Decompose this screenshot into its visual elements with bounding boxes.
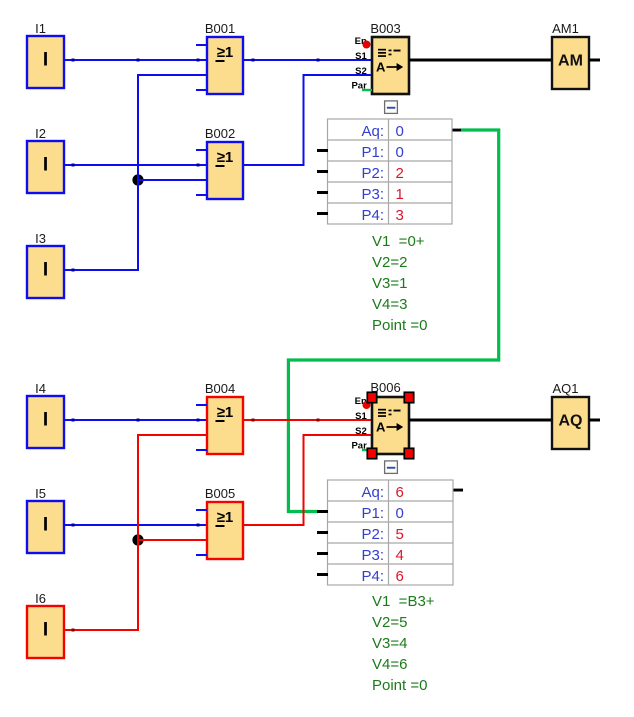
wire I3 to B001 input 3 (vertical trunk) <box>64 75 207 272</box>
svg-text:S2: S2 <box>355 66 367 77</box>
svg-text:V1 =0+: V1 =0+ <box>372 233 425 250</box>
svg-text:P4:: P4: <box>361 207 384 224</box>
wire I2 to B002 input 2 <box>64 164 207 167</box>
svg-text:Point =0: Point =0 <box>372 677 427 694</box>
analog output AM1 <box>552 21 600 89</box>
svg-text:P3:: P3: <box>361 547 384 564</box>
wire B003 output to AM1 (analog, black) <box>409 59 552 62</box>
wire B002 output to B003 S2 <box>243 75 372 165</box>
wire I1 to B001 input 2 <box>64 59 207 62</box>
svg-text:V2=2: V2=2 <box>372 254 407 271</box>
svg-text:V4=3: V4=3 <box>372 296 407 313</box>
parameter box 2 input pins P1-P4 <box>317 510 328 576</box>
OR gate B001 <box>196 21 243 94</box>
svg-text:I: I <box>43 410 48 431</box>
svg-text:AM: AM <box>558 53 583 70</box>
svg-text:6: 6 <box>396 484 404 501</box>
svg-text:I6: I6 <box>35 591 46 606</box>
green reference wire box1 Aq to box2 P1 <box>288 130 498 512</box>
svg-text:I: I <box>43 155 48 176</box>
svg-text:B001: B001 <box>205 21 235 36</box>
svg-text:S2: S2 <box>355 426 367 437</box>
input I2 <box>27 126 64 193</box>
svg-text:P3:: P3: <box>361 186 384 203</box>
svg-text:1: 1 <box>396 186 404 203</box>
svg-text:0: 0 <box>396 505 404 522</box>
parameter text of B003 <box>372 233 427 334</box>
analog multiplexer B003 <box>351 21 409 94</box>
collapse button of B003 parameter box <box>385 101 398 114</box>
selection handle bottom-left of B006 <box>367 448 376 458</box>
selection handle top-right of B006 <box>404 392 413 402</box>
red unconnected marker at B006 En <box>363 401 371 409</box>
svg-text:4: 4 <box>396 547 404 564</box>
analog output AQ1 <box>552 381 600 449</box>
svg-text:V4=6: V4=6 <box>372 656 407 673</box>
wire B001 output to B003 S1 <box>243 59 372 62</box>
analog multiplexer B006 (selected) <box>351 380 409 454</box>
svg-text:I: I <box>43 50 48 71</box>
wire junction to B002 input 3 <box>138 179 207 181</box>
svg-text:S1: S1 <box>355 411 367 422</box>
parameter box 1 input pins P1-P4 <box>317 149 328 215</box>
svg-text:P4:: P4: <box>361 568 384 585</box>
svg-text:5: 5 <box>396 526 404 543</box>
svg-text:B004: B004 <box>205 381 235 396</box>
svg-text:P2:: P2: <box>361 526 384 543</box>
wire I4 to B004 input 2 <box>64 419 207 422</box>
wire I6 to B004 input 3 (red trunk) <box>64 435 207 632</box>
svg-text:I5: I5 <box>35 486 46 501</box>
input I3 <box>27 231 64 298</box>
svg-text:2: 2 <box>396 165 404 182</box>
wire B004 output to B006 S1 <box>243 419 372 422</box>
svg-text:B002: B002 <box>205 126 235 141</box>
svg-text:≥1: ≥1 <box>217 509 234 526</box>
svg-text:≥1: ≥1 <box>217 44 234 61</box>
svg-text:B005: B005 <box>205 486 235 501</box>
wire B005 output to B006 S2 <box>243 435 372 525</box>
wire junction to B005 input 3 <box>138 539 207 541</box>
selection handle top-left of B006 <box>367 392 376 402</box>
svg-text:I: I <box>43 515 48 536</box>
svg-text:Aq:: Aq: <box>361 123 384 140</box>
junction node (138,180) <box>132 174 143 185</box>
svg-text:A: A <box>376 420 386 435</box>
svg-text:3: 3 <box>396 207 404 224</box>
parameter box of B006 <box>328 480 454 585</box>
svg-text:AQ: AQ <box>559 413 583 430</box>
svg-text:P1:: P1: <box>361 505 384 522</box>
input I1 <box>27 21 64 88</box>
svg-text:I: I <box>43 620 48 641</box>
svg-text:S1: S1 <box>355 51 367 62</box>
svg-text:P1:: P1: <box>361 144 384 161</box>
svg-text:I4: I4 <box>35 381 46 396</box>
wire B006 output to AQ1 (analog, black) <box>409 419 552 422</box>
junction node (138,540) <box>132 534 143 545</box>
OR gate B005 <box>196 486 243 559</box>
wire I5 to B005 input 2 <box>64 524 207 527</box>
svg-text:I: I <box>43 260 48 281</box>
svg-text:A: A <box>376 60 386 75</box>
svg-text:≥1: ≥1 <box>217 149 234 166</box>
svg-text:Aq:: Aq: <box>361 484 384 501</box>
input I5 <box>27 486 64 553</box>
svg-text:6: 6 <box>396 568 404 585</box>
svg-text:V3=4: V3=4 <box>372 635 407 652</box>
OR gate B004 <box>196 381 243 454</box>
selection handle bottom-right of B006 <box>404 448 413 458</box>
red unconnected marker at B003 En <box>363 41 371 49</box>
svg-text:I3: I3 <box>35 231 46 246</box>
svg-text:V2=5: V2=5 <box>372 614 407 631</box>
input I6 <box>27 591 64 658</box>
input I4 <box>27 381 64 448</box>
svg-text:P2:: P2: <box>361 165 384 182</box>
svg-text:B003: B003 <box>370 21 400 36</box>
OR gate B002 <box>196 126 243 199</box>
parameter text of B006 <box>372 593 435 694</box>
svg-text:AQ1: AQ1 <box>552 381 578 396</box>
parameter box 2 output pin Aq <box>454 489 464 492</box>
parameter box 1 output pin Aq <box>453 129 463 132</box>
svg-text:0: 0 <box>396 144 404 161</box>
parameter box of B003 <box>328 119 453 224</box>
svg-text:V3=1: V3=1 <box>372 275 407 292</box>
svg-text:≥1: ≥1 <box>217 404 234 421</box>
collapse button of B006 parameter box <box>385 461 398 474</box>
svg-text:I1: I1 <box>35 21 46 36</box>
svg-text:Point =0: Point =0 <box>372 317 427 334</box>
svg-text:V1 =B3+: V1 =B3+ <box>372 593 435 610</box>
svg-text:I2: I2 <box>35 126 46 141</box>
svg-text:AM1: AM1 <box>552 21 579 36</box>
svg-text:0: 0 <box>396 123 404 140</box>
